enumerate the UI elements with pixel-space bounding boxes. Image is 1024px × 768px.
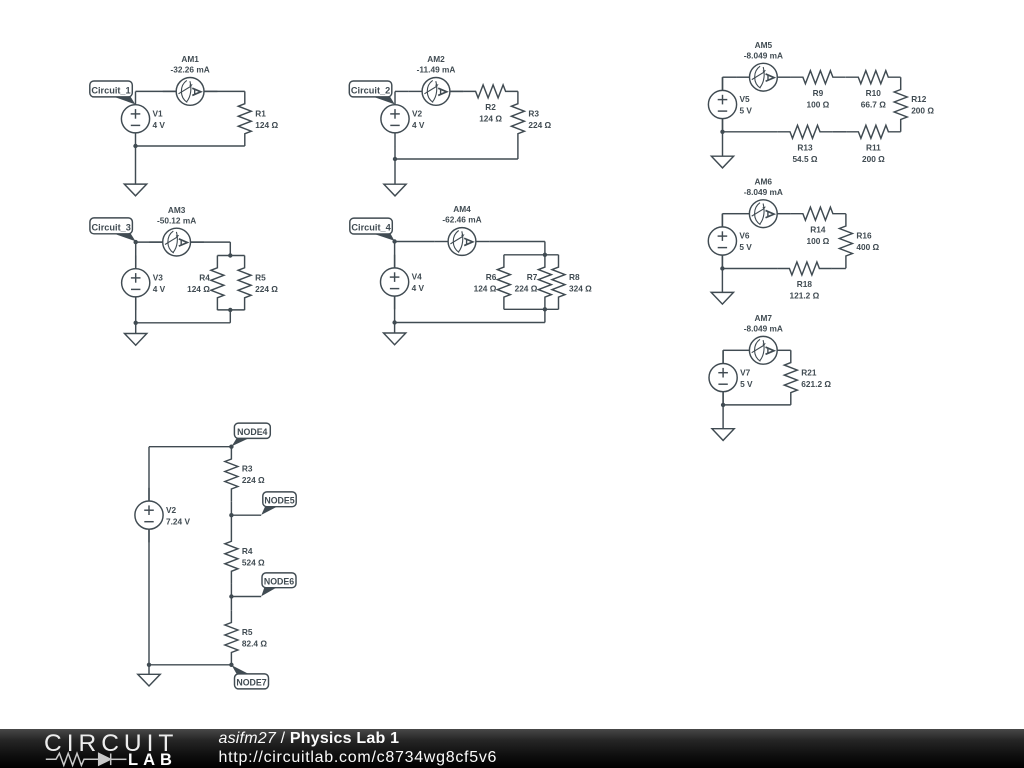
ammeter AM7 -8.049 mA (736, 313, 791, 364)
svg-text:66.7 Ω: 66.7 Ω (861, 99, 886, 109)
svg-text:5 V: 5 V (739, 242, 752, 252)
svg-text:R4: R4 (242, 546, 253, 556)
svg-text:AM2: AM2 (427, 54, 445, 64)
svg-text:AM1: AM1 (181, 54, 199, 64)
svg-text:124 Ω: 124 Ω (479, 114, 502, 124)
voltage source V2 4 V (381, 92, 425, 147)
node NODE4 flag (232, 423, 271, 446)
wire c4 top left (395, 241, 435, 243)
wire c5 top r9-r10 (844, 76, 847, 78)
wire c3 bracket top (217, 255, 244, 257)
resistor R1 124 Ω (238, 91, 278, 146)
wire cb node5-r4 (230, 515, 232, 529)
node Circuit_2 flag (349, 81, 395, 104)
wire cb top (149, 446, 231, 448)
resistor R8 324 Ω (552, 255, 592, 310)
wire cb ground stem (148, 665, 150, 675)
svg-text:V4: V4 (412, 272, 423, 282)
svg-text:R2: R2 (485, 102, 496, 112)
wire c3 left vertical (135, 242, 137, 323)
node NODE5 flag (261, 492, 296, 515)
ammeter AM6 -8.049 mA (736, 176, 791, 227)
wire c6 top right (844, 213, 847, 215)
ground cb (138, 674, 160, 686)
svg-text:AM6: AM6 (755, 176, 773, 186)
node NODE6 flag (261, 573, 296, 596)
svg-text:324 Ω: 324 Ω (569, 283, 592, 293)
junction c3 bracket top (228, 253, 232, 257)
svg-text:Circuit_3: Circuit_3 (92, 223, 131, 233)
resistor R6 124 Ω (474, 255, 511, 310)
wire c6 bottom right (832, 268, 846, 270)
wire c4 top right (489, 241, 545, 243)
svg-text:AM5: AM5 (755, 40, 773, 50)
svg-text:54.5 Ω: 54.5 Ω (792, 154, 817, 164)
wire c2 right extra (517, 146, 519, 159)
svg-text:R5: R5 (255, 273, 266, 283)
svg-text:224 Ω: 224 Ω (242, 475, 265, 485)
wire c4 bracket bottom (504, 308, 559, 310)
ground c4 (384, 333, 406, 345)
svg-text:7.24 V: 7.24 V (166, 516, 190, 526)
svg-text:4 V: 4 V (412, 120, 425, 130)
svg-text:R6: R6 (486, 272, 497, 282)
wire c7 left vertical (722, 350, 724, 405)
resistor R7 224 Ω (515, 255, 552, 310)
junction cb NODE4 (229, 445, 233, 449)
svg-text:-8.049 mA: -8.049 mA (744, 324, 783, 334)
wire c5 top mid (790, 76, 792, 78)
junction cb NODE6 (229, 594, 233, 598)
svg-text:82.4 Ω: 82.4 Ω (242, 639, 267, 649)
ground c2 (384, 184, 406, 196)
junction c1 bottom-left (133, 144, 137, 148)
ammeter AM2 -11.49 mA (409, 54, 464, 105)
ground c5 (711, 156, 733, 168)
svg-text:Circuit_2: Circuit_2 (351, 86, 390, 96)
node Circuit_4 flag (350, 218, 395, 241)
svg-text:V5: V5 (740, 94, 751, 104)
wire cb node5 stub (231, 514, 261, 516)
wire c5 ground stem (722, 132, 724, 156)
ground c6 (711, 292, 733, 304)
ammeter AM4 -62.46 mA (435, 204, 490, 255)
wire c2 right vertical entry (517, 90, 519, 92)
svg-text:124 Ω: 124 Ω (474, 283, 497, 293)
wire c4 top drop (544, 242, 546, 255)
svg-text:4 V: 4 V (153, 284, 166, 294)
svg-text:-50.12 mA: -50.12 mA (157, 215, 196, 225)
wire c4 bottom (395, 322, 545, 324)
svg-text:224 Ω: 224 Ω (515, 283, 538, 293)
junction cb bottom-left (147, 663, 151, 667)
junction cb NODE7 (229, 663, 233, 667)
node Circuit_1 flag (90, 81, 136, 104)
svg-text:200 Ω: 200 Ω (862, 154, 885, 164)
wire c2 ground stem (394, 159, 396, 184)
junction c3 node top-left (134, 240, 138, 244)
footer url (219, 749, 498, 767)
resistor R3 224 Ω (series chain) (225, 447, 265, 502)
svg-text:-62.46 mA: -62.46 mA (442, 215, 481, 225)
wire c1 top (node Circuit_1 to R1) (136, 90, 245, 92)
svg-text:R4: R4 (199, 273, 210, 283)
wire c4 ground stem (394, 323, 396, 334)
resistor R21 621.2 Ω (784, 350, 831, 405)
svg-text:R14: R14 (810, 224, 826, 234)
wire c2 V2 bottom lead (394, 146, 396, 159)
svg-text:200 Ω: 200 Ω (911, 106, 934, 116)
CircuitLab logo (0, 728, 200, 768)
svg-text:R10: R10 (866, 88, 882, 98)
wire cb left vertical (148, 447, 150, 665)
svg-text:121.2 Ω: 121.2 Ω (790, 291, 820, 301)
junction c3 bracket bottom (228, 308, 232, 312)
resistor R11 200 Ω (846, 125, 901, 164)
resistor R14 100 Ω (791, 207, 846, 246)
svg-text:R13: R13 (797, 142, 813, 152)
wire c3 ground stem (135, 323, 137, 334)
wire c4 bracket top (504, 254, 559, 256)
ground c1 (124, 184, 146, 196)
node Circuit_3 flag (90, 218, 136, 241)
svg-text:V1: V1 (153, 109, 164, 119)
wire c4 left vertical (394, 242, 396, 323)
svg-text:V3: V3 (153, 273, 164, 283)
resistor R4 524 Ω (series chain) (225, 529, 265, 584)
wire cb bottom (149, 664, 231, 666)
svg-text:R12: R12 (911, 94, 927, 104)
wire c3 bottom (136, 322, 231, 324)
ground c3 (125, 334, 147, 346)
wire c5 bottom mid (832, 131, 846, 133)
junction c7 bottom-left (721, 403, 725, 407)
wire c2 top mid (450, 90, 463, 92)
wire c5 top left (723, 76, 737, 78)
footer bar (0, 729, 1024, 768)
svg-text:Circuit_4: Circuit_4 (351, 223, 391, 233)
svg-text:R21: R21 (801, 367, 817, 377)
wire c5 left vertical (722, 77, 724, 132)
resistor R9 100 Ω (791, 71, 846, 110)
wire c3 bracket bottom (217, 309, 244, 311)
svg-text:R16: R16 (856, 231, 872, 241)
wire c7 ground stem (722, 405, 724, 429)
svg-text:V6: V6 (739, 231, 750, 241)
svg-text:R11: R11 (866, 142, 881, 152)
svg-text:100 Ω: 100 Ω (806, 99, 829, 109)
svg-text:AM3: AM3 (168, 205, 186, 215)
svg-text:100 Ω: 100 Ω (806, 236, 829, 246)
svg-text:V7: V7 (740, 367, 751, 377)
svg-text:R7: R7 (527, 272, 538, 282)
wire c6 bottom left (722, 268, 777, 270)
svg-text:R1: R1 (255, 108, 266, 118)
wire c3 bottom drop (229, 310, 231, 323)
voltage source V6 5 V (708, 214, 752, 269)
wire c3 top drop (229, 242, 231, 255)
svg-text:-11.49 mA: -11.49 mA (417, 65, 456, 75)
wire c3 top (136, 241, 231, 243)
junction c5 bottom-left (720, 130, 724, 134)
svg-text:400 Ω: 400 Ω (856, 242, 879, 252)
resistor R5 82.4 Ω (series chain) (225, 610, 267, 665)
svg-text:Circuit_1: Circuit_1 (91, 86, 130, 96)
svg-text:R3: R3 (242, 464, 253, 474)
junction c6 bottom-left (720, 266, 724, 270)
svg-text:4 V: 4 V (412, 283, 425, 293)
svg-text:R3: R3 (528, 108, 539, 118)
resistor R4 124 Ω (187, 256, 224, 311)
footer title (219, 730, 400, 748)
junction cb NODE5 (229, 513, 233, 517)
svg-text:4 V: 4 V (153, 120, 166, 130)
wire c6 right corner (845, 213, 847, 215)
voltage source V1 4 V (121, 92, 165, 147)
junction c3 bottom-left (134, 321, 138, 325)
node NODE7 flag (232, 665, 269, 689)
junction c2 bottom-left (393, 157, 397, 161)
junction c4 bracket top (543, 253, 547, 257)
wire c1 ground stem (135, 146, 137, 184)
svg-text:NODE4: NODE4 (237, 427, 267, 437)
svg-text:-8.049 mA: -8.049 mA (744, 50, 783, 60)
junction c4 bracket bottom (543, 307, 547, 311)
resistor R3 224 Ω (511, 91, 551, 146)
svg-text:124 Ω: 124 Ω (187, 284, 210, 294)
resistor R13 54.5 Ω (778, 125, 833, 164)
logo schematic squiggle: wire, resistor, diode (46, 753, 127, 765)
wire c7 bottom (723, 404, 791, 406)
wire cb node6-r5 (230, 597, 232, 611)
wire cb node6 stub (231, 596, 261, 598)
wire c7 top right (790, 349, 792, 351)
junction c4 node top-left (392, 239, 396, 243)
svg-text:AM4: AM4 (453, 204, 471, 214)
svg-text:R18: R18 (797, 279, 813, 289)
junction c4 bottom-left (392, 320, 396, 324)
svg-text:5 V: 5 V (740, 106, 753, 116)
ammeter AM1 -32.26 mA (163, 54, 218, 105)
resistor R16 400 Ω (839, 214, 879, 269)
wire cb r4-node6 (230, 584, 232, 597)
svg-text:LAB: LAB (128, 751, 177, 768)
voltage source V5 5 V (708, 77, 752, 132)
svg-text:-8.049 mA: -8.049 mA (744, 187, 783, 197)
voltage source V2 7.24 V (135, 488, 191, 543)
svg-text:224 Ω: 224 Ω (255, 284, 278, 294)
resistor R18 121.2 Ω (777, 262, 832, 301)
svg-text:NODE6: NODE6 (264, 576, 294, 586)
svg-text:R8: R8 (569, 272, 580, 282)
resistor R12 200 Ω (894, 77, 934, 132)
svg-text:V2: V2 (166, 505, 177, 515)
ammeter AM5 -8.049 mA (736, 40, 791, 91)
svg-text:224 Ω: 224 Ω (528, 120, 551, 130)
resistor R5 224 Ω (238, 256, 278, 311)
voltage source V3 4 V (122, 256, 166, 311)
svg-text:-32.26 mA: -32.26 mA (170, 65, 209, 75)
wire c6 left vertical (721, 214, 723, 269)
svg-text:NODE5: NODE5 (264, 495, 294, 505)
wire c1 bottom (136, 145, 245, 147)
wire c4 bottom drop (544, 309, 546, 322)
svg-text:524 Ω: 524 Ω (242, 558, 265, 568)
svg-text:AM7: AM7 (755, 313, 773, 323)
wire c6 ground stem (721, 269, 723, 293)
svg-text:R5: R5 (242, 627, 253, 637)
wire c2 top left (395, 90, 409, 92)
wire c5 bottom left (723, 131, 778, 133)
ammeter AM3 -50.12 mA (149, 205, 204, 256)
wire c2 bottom (395, 158, 518, 160)
resistor R10 66.7 Ω (846, 71, 901, 110)
svg-text:621.2 Ω: 621.2 Ω (801, 379, 831, 389)
wire c6 top left (722, 213, 736, 215)
ground c7 (712, 429, 734, 441)
svg-text:NODE7: NODE7 (236, 678, 266, 688)
wire cb chain r3-node5 (230, 501, 232, 515)
resistor R2 124 Ω (463, 85, 518, 124)
voltage source V4 4 V (381, 255, 425, 310)
svg-text:V2: V2 (412, 109, 423, 119)
svg-text:124 Ω: 124 Ω (255, 120, 278, 130)
svg-text:R9: R9 (813, 88, 824, 98)
svg-text:5 V: 5 V (740, 379, 753, 389)
wire c7 top left (723, 349, 736, 351)
voltage source V7 5 V (709, 350, 753, 405)
